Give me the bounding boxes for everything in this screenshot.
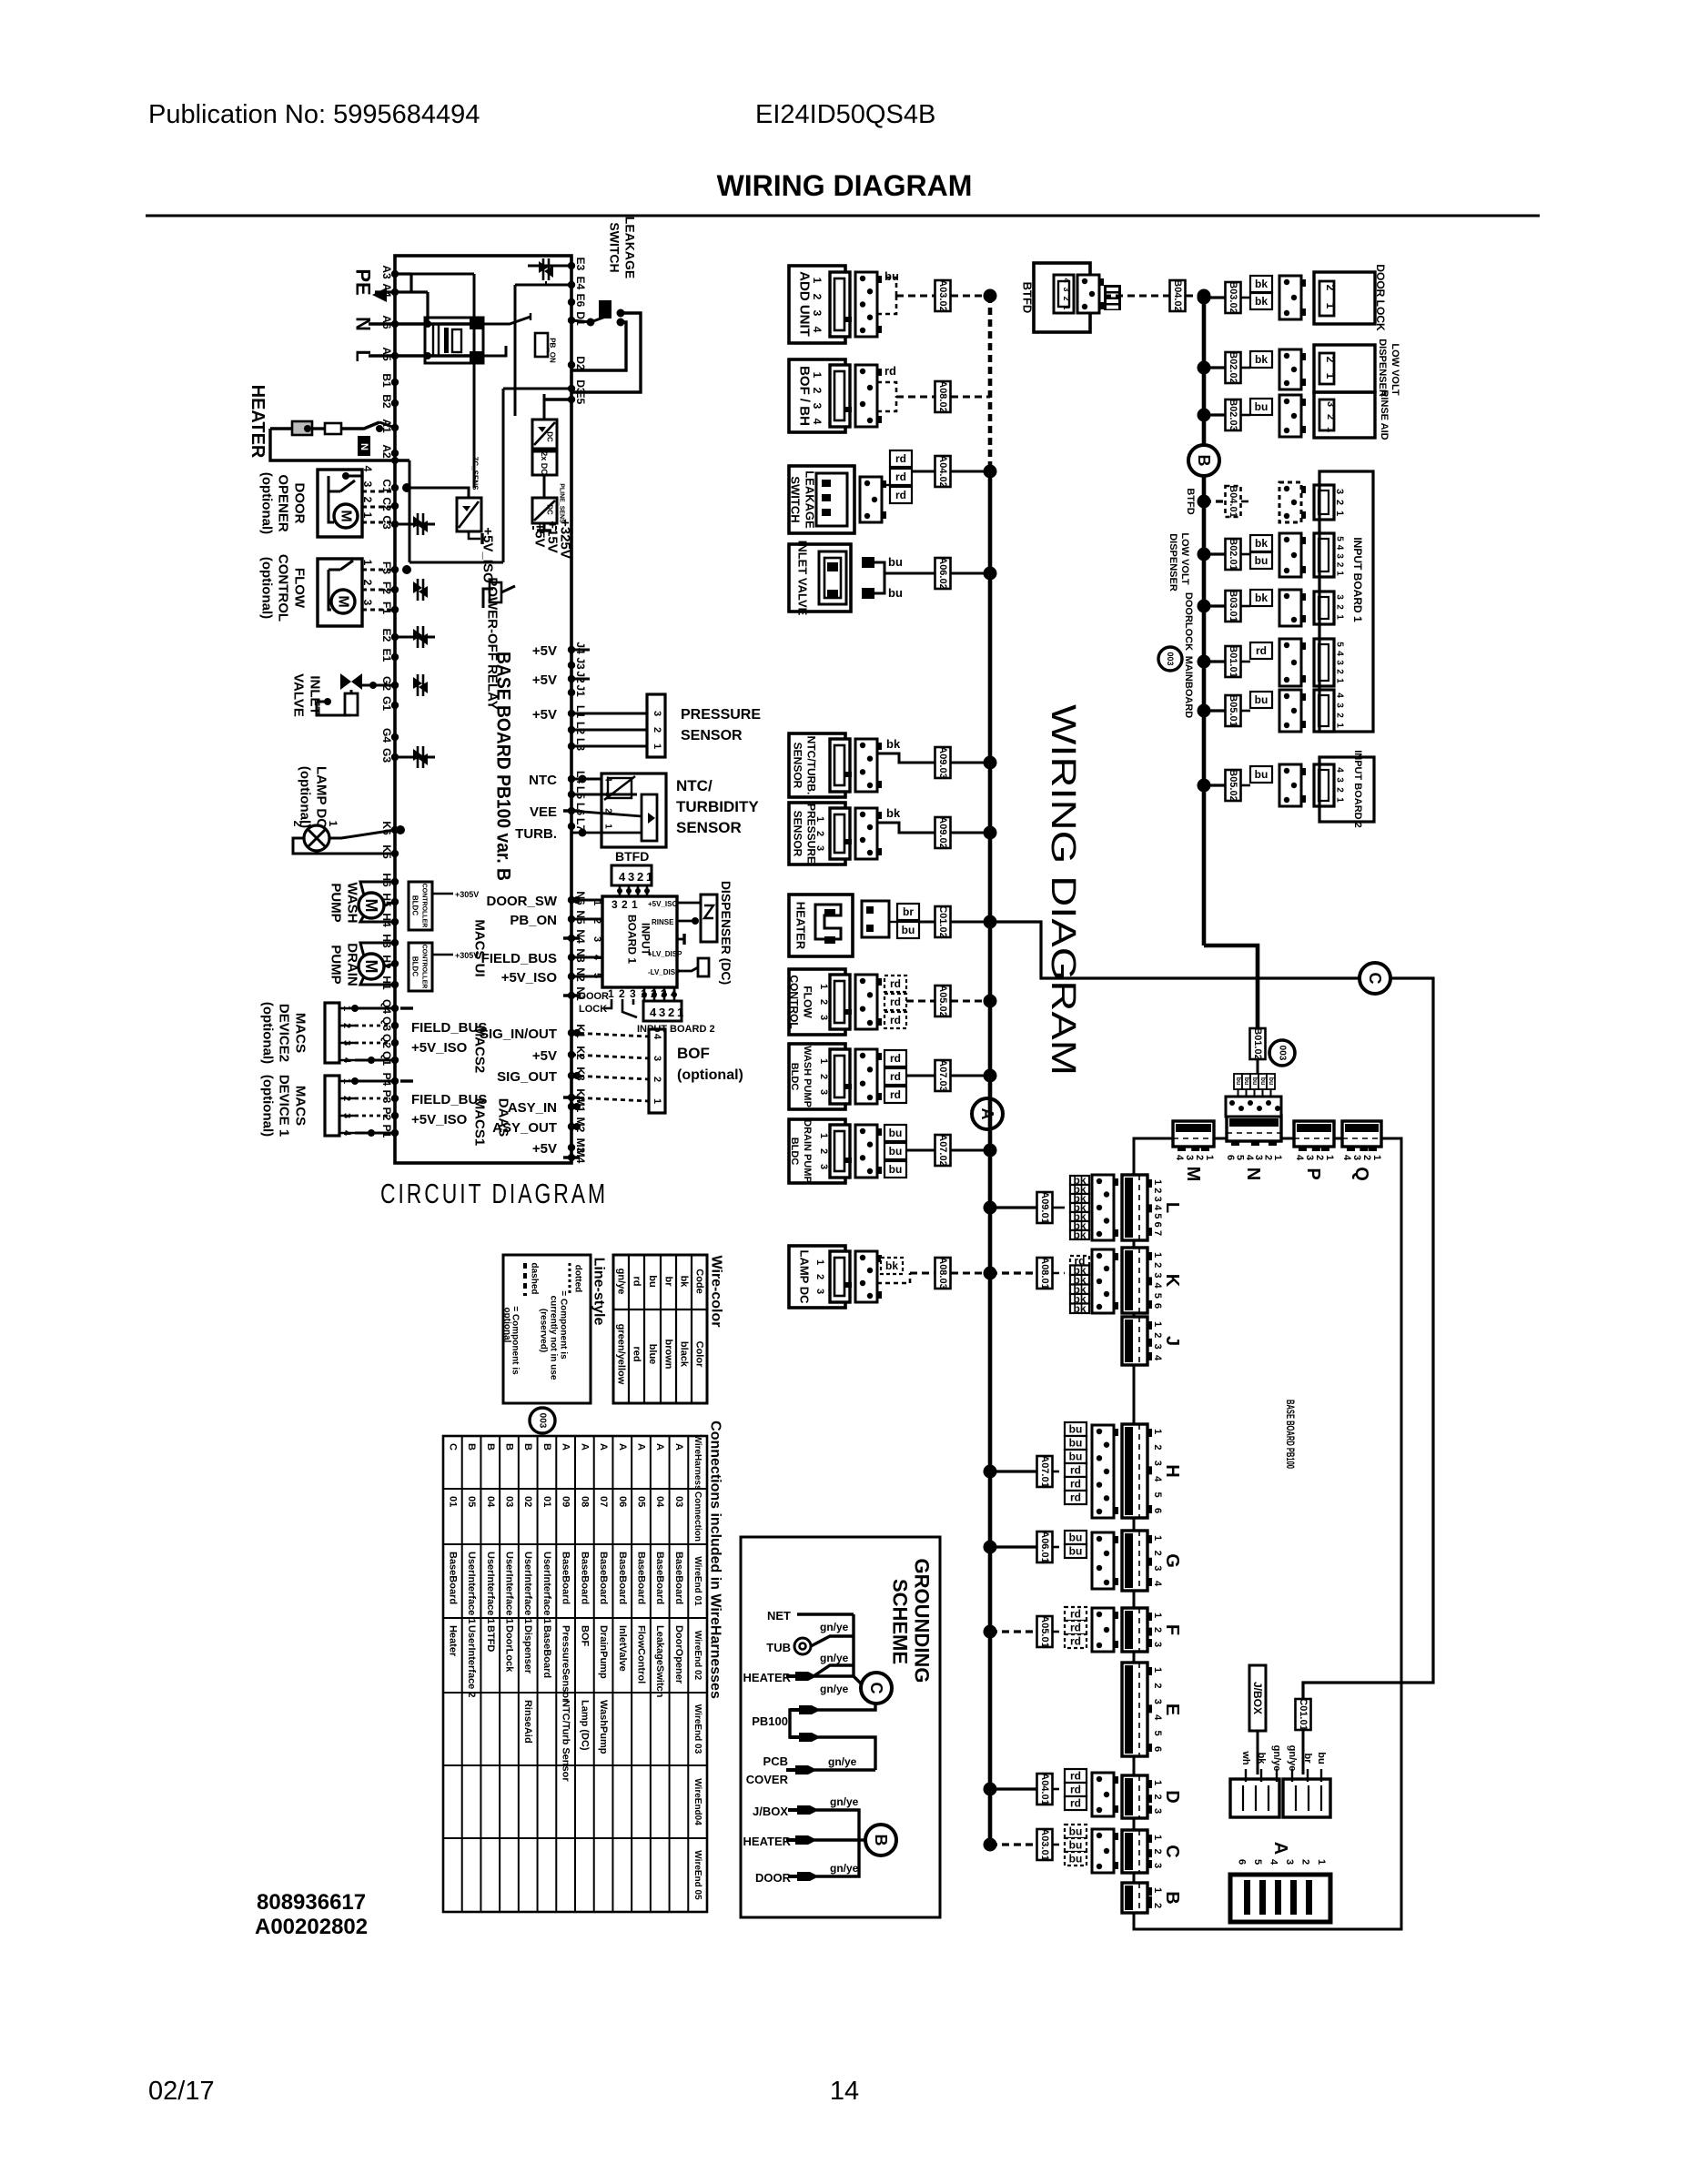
svg-text:B2: B2 — [380, 394, 393, 409]
svg-text:LOW VOLT: LOW VOLT — [1390, 343, 1400, 396]
svg-text:bu: bu — [1255, 693, 1269, 706]
svg-text:4: 4 — [1152, 1476, 1163, 1482]
grounding scheme box — [741, 1537, 940, 1917]
svg-text:04: 04 — [654, 1496, 665, 1508]
BTFD plug — [1104, 285, 1121, 310]
svg-text:BaseBoard: BaseBoard — [654, 1552, 665, 1604]
svg-text:bu: bu — [888, 586, 903, 600]
svg-text:bu: bu — [1069, 1853, 1083, 1865]
svg-text:BLDC: BLDC — [789, 1063, 800, 1091]
svg-text:2: 2 — [1062, 296, 1071, 300]
base board PB100 outline — [395, 256, 571, 1163]
svg-text:rd: rd — [1070, 1635, 1081, 1648]
svg-text:TUB: TUB — [766, 1641, 791, 1654]
svg-text:WireEnd 03: WireEnd 03 — [692, 1704, 702, 1754]
svg-text:1: 1 — [361, 560, 374, 566]
svg-text:1: 1 — [1152, 1179, 1163, 1185]
svg-text:B01.01: B01.01 — [1228, 645, 1238, 677]
triac G2 — [413, 677, 428, 693]
svg-text:NTC/TURB.: NTC/TURB. — [805, 736, 818, 795]
svg-text:14: 14 — [830, 2077, 859, 2106]
connector C — [1122, 1830, 1147, 1873]
svg-text:NTC/: NTC/ — [676, 777, 713, 794]
svg-text:A: A — [579, 1443, 590, 1451]
svg-text:3: 3 — [591, 936, 602, 942]
svg-text:A00202802: A00202802 — [255, 1915, 368, 1939]
svg-text:1: 1 — [608, 987, 614, 1000]
svg-text:bk: bk — [1256, 1753, 1267, 1765]
svg-text:3: 3 — [814, 1289, 825, 1294]
PRESSURE sensor component — [789, 803, 845, 864]
svg-text:SENSOR: SENSOR — [792, 811, 804, 857]
svg-text:4: 4 — [1152, 1581, 1163, 1587]
svg-text:1: 1 — [1316, 1859, 1327, 1865]
svg-text:BaseBoard: BaseBoard — [636, 1552, 647, 1604]
svg-text:3: 3 — [1152, 1344, 1163, 1350]
svg-text:3: 3 — [1062, 287, 1071, 291]
input board 1 — [602, 896, 677, 987]
svg-text:2: 2 — [814, 831, 825, 836]
svg-text:3: 3 — [612, 898, 618, 911]
svg-text:HEATER: HEATER — [248, 385, 268, 459]
svg-text:4: 4 — [1335, 651, 1345, 656]
svg-text:(optional): (optional) — [259, 472, 275, 534]
svg-text:HEATER: HEATER — [794, 902, 808, 950]
svg-text:2: 2 — [818, 1148, 829, 1154]
svg-text:DISPENSER: DISPENSER — [1167, 533, 1178, 591]
svg-text:F: F — [1162, 1624, 1182, 1635]
svg-text:DrainPump: DrainPump — [598, 1625, 609, 1679]
svg-text:3: 3 — [603, 792, 613, 797]
5V iso converter — [457, 498, 481, 531]
svg-text:F3: F3 — [380, 561, 393, 574]
svg-text:C01.02: C01.02 — [937, 905, 948, 937]
svg-text:SIG_OUT: SIG_OUT — [497, 1069, 557, 1085]
svg-text:4: 4 — [619, 870, 626, 884]
circle A node — [972, 1098, 1003, 1129]
C01.01 codebox — [1296, 1699, 1311, 1730]
connector E — [1122, 1663, 1147, 1756]
svg-text:A09.01: A09.01 — [1039, 1191, 1050, 1223]
svg-text:4: 4 — [1335, 545, 1345, 551]
svg-text:E2: E2 — [380, 629, 393, 642]
svg-text:WASH PUMP: WASH PUMP — [802, 1046, 813, 1107]
svg-text:WIRING DIAGRAM: WIRING DIAGRAM — [717, 169, 973, 202]
svg-text:2: 2 — [1335, 713, 1345, 718]
svg-text:A: A — [561, 1443, 571, 1451]
svg-text:SWITCH: SWITCH — [608, 222, 622, 272]
svg-text:E6: E6 — [574, 294, 587, 308]
row B05.02 — [1198, 779, 1211, 793]
svg-text:B02.02: B02.02 — [1228, 351, 1238, 383]
svg-text:Wire-color: Wire-color — [709, 1256, 724, 1328]
svg-text:LAMP DC: LAMP DC — [798, 1250, 812, 1305]
lug connector blocks — [1230, 1779, 1279, 1817]
svg-text:3: 3 — [818, 1089, 829, 1095]
svg-text:1: 1 — [652, 743, 662, 749]
svg-text:bu: bu — [1243, 1077, 1249, 1086]
svg-text:M: M — [1183, 1167, 1203, 1182]
dispenser (DC) — [701, 895, 717, 942]
svg-text:2: 2 — [1325, 414, 1336, 420]
svg-text:bk: bk — [885, 1259, 898, 1272]
svg-text:BTFD: BTFD — [485, 1625, 496, 1652]
svg-text:1: 1 — [1335, 614, 1345, 620]
svg-text:03: 03 — [673, 1496, 684, 1507]
svg-text:gn/ye: gn/ye — [820, 1683, 849, 1695]
svg-text:FlowControl: FlowControl — [636, 1625, 647, 1683]
NTC/TURB sensor component — [789, 733, 845, 797]
svg-text:dashed: dashed — [530, 1262, 540, 1294]
svg-text:-LV_DISP: -LV_DISP — [648, 968, 681, 976]
relay coil bottom — [483, 589, 493, 608]
svg-text:BOF / BH: BOF / BH — [797, 366, 813, 426]
bus A vertical — [988, 296, 993, 471]
svg-text:DRAIN PUMP: DRAIN PUMP — [802, 1119, 813, 1183]
svg-text:H: H — [1162, 1464, 1182, 1477]
circle B grounding — [865, 1825, 896, 1855]
svg-text:A07.03: A07.03 — [937, 1059, 948, 1091]
svg-text:ASY_IN: ASY_IN — [508, 1100, 557, 1116]
svg-text:02/17: 02/17 — [148, 2077, 215, 2106]
svg-text:MACS: MACS — [293, 1013, 308, 1053]
svg-text:RinseAid: RinseAid — [522, 1700, 533, 1744]
circle B node — [1188, 445, 1219, 476]
svg-text:A04.02: A04.02 — [937, 455, 948, 487]
svg-text:B: B — [466, 1443, 477, 1451]
svg-text:(optional): (optional) — [260, 1002, 276, 1064]
svg-text:bu: bu — [1235, 1077, 1241, 1086]
svg-text:H1: H1 — [380, 976, 393, 990]
svg-text:LAMP DC: LAMP DC — [314, 766, 329, 828]
svg-text:1: 1 — [1152, 1780, 1163, 1785]
svg-text:UserInterface 1: UserInterface 1 — [504, 1552, 515, 1624]
svg-text:A08.02: A08.02 — [937, 380, 948, 412]
003 circle — [1158, 647, 1182, 671]
svg-text:1: 1 — [814, 1259, 825, 1265]
svg-text:07: 07 — [598, 1496, 609, 1507]
bus B vertical — [1202, 296, 1207, 945]
svg-text:CONTROL: CONTROL — [276, 554, 291, 622]
svg-text:rd: rd — [895, 452, 906, 465]
svg-text:4: 4 — [1152, 1283, 1163, 1289]
svg-text:L1: L1 — [574, 705, 587, 718]
svg-text:L3: L3 — [574, 738, 587, 751]
svg-text:+305V: +305V — [455, 890, 479, 899]
base board PB100 (wiring side) — [1134, 1138, 1401, 1929]
svg-text:Connection: Connection — [692, 1491, 702, 1542]
svg-text:L6: L6 — [574, 803, 587, 815]
row DOOR LOCK — [1198, 291, 1211, 305]
svg-text:BLDC: BLDC — [411, 956, 419, 976]
svg-text:PB100: PB100 — [752, 1714, 788, 1728]
svg-text:2: 2 — [1152, 1262, 1163, 1268]
svg-text:+5V_ISO: +5V_ISO — [501, 970, 558, 986]
svg-text:SENSOR: SENSOR — [681, 728, 743, 743]
connector G — [1122, 1531, 1147, 1591]
svg-text:1: 1 — [818, 1133, 829, 1138]
svg-text:A: A — [617, 1443, 628, 1451]
svg-text:+5V: +5V — [532, 1141, 557, 1157]
svg-text:Q3: Q3 — [380, 1016, 393, 1031]
svg-text:rd: rd — [890, 977, 901, 990]
svg-text:3: 3 — [1335, 660, 1345, 665]
svg-text:WireEnd 05: WireEnd 05 — [692, 1850, 702, 1900]
svg-text:InletValve: InletValve — [617, 1625, 628, 1672]
svg-text:G3: G3 — [380, 748, 393, 763]
svg-text:3: 3 — [811, 403, 824, 409]
svg-text:MACS1: MACS1 — [472, 1098, 488, 1147]
svg-text:H6: H6 — [380, 873, 393, 887]
svg-text:1: 1 — [1335, 571, 1345, 576]
svg-text:HEATER: HEATER — [743, 1671, 792, 1684]
svg-text:H4: H4 — [380, 913, 393, 927]
svg-text:4: 4 — [1152, 1355, 1163, 1361]
row DOORLOCK — [1198, 600, 1211, 613]
svg-text:M: M — [339, 510, 354, 521]
EMI filter block — [425, 318, 483, 363]
svg-text:2: 2 — [1152, 1848, 1163, 1854]
svg-text:DOOR: DOOR — [579, 991, 609, 1002]
svg-text:7: 7 — [1152, 1230, 1163, 1236]
svg-text:A3: A3 — [380, 265, 393, 279]
svg-text:4: 4 — [650, 1006, 657, 1019]
svg-text:4: 4 — [361, 466, 374, 472]
svg-text:J/BOX: J/BOX — [753, 1805, 788, 1818]
row MAINBOARD — [1198, 655, 1211, 669]
svg-text:CONTROLLER: CONTROLLER — [421, 884, 428, 928]
svg-text:UserInterface 1: UserInterface 1 — [485, 1552, 496, 1624]
svg-text:NTC/Turb Sensor: NTC/Turb Sensor — [561, 1700, 571, 1782]
svg-text:Heater: Heater — [447, 1625, 458, 1657]
svg-text:rd: rd — [1070, 1478, 1081, 1491]
svg-text:5: 5 — [1152, 1492, 1163, 1498]
WASH PUMP BLDC component — [789, 1044, 845, 1109]
svg-text:4: 4 — [1294, 1155, 1305, 1161]
svg-text:LEAKAGE: LEAKAGE — [623, 217, 638, 278]
svg-text:6: 6 — [1225, 1155, 1236, 1160]
svg-text:B: B — [1195, 455, 1213, 467]
svg-text:3: 3 — [652, 1056, 662, 1061]
svg-text:3: 3 — [1335, 594, 1345, 600]
svg-text:EI24ID50QS4B: EI24ID50QS4B — [755, 100, 935, 129]
svg-text:1: 1 — [1335, 723, 1345, 728]
svg-text:4: 4 — [1062, 278, 1071, 282]
row L harness — [984, 1201, 997, 1215]
svg-text:red: red — [632, 1346, 642, 1361]
svg-text:OPENER: OPENER — [276, 474, 291, 532]
svg-text:4: 4 — [1341, 1155, 1352, 1161]
svg-text:BaseBoard: BaseBoard — [673, 1552, 684, 1604]
BLDC controller (wash) — [409, 882, 432, 930]
INLET VALVE component — [789, 544, 851, 612]
svg-text:2: 2 — [1324, 357, 1337, 363]
svg-text:3: 3 — [1152, 1863, 1163, 1868]
svg-text:NTC: NTC — [529, 773, 557, 788]
svg-text:BLDC: BLDC — [789, 1137, 800, 1166]
BOF (optional) — [649, 1029, 665, 1113]
svg-text:003: 003 — [538, 1413, 548, 1429]
svg-text:N5: N5 — [574, 910, 587, 925]
svg-text:4: 4 — [1335, 693, 1345, 698]
svg-text:MACS UI: MACS UI — [472, 919, 488, 976]
svg-text:2: 2 — [818, 1074, 829, 1079]
row B05.01 — [1198, 704, 1211, 718]
svg-text:rd: rd — [890, 996, 901, 1008]
svg-text:L: L — [352, 349, 375, 361]
svg-text:M: M — [362, 960, 380, 974]
svg-text:4: 4 — [1335, 767, 1345, 773]
svg-text:+5V_ISO: +5V_ISO — [411, 1112, 468, 1127]
svg-text:bu: bu — [889, 1127, 903, 1139]
svg-text:INLET VALVE: INLET VALVE — [796, 541, 810, 616]
svg-text:1: 1 — [1324, 373, 1337, 379]
svg-text:MACS: MACS — [293, 1086, 308, 1126]
row H harness — [984, 1465, 997, 1479]
svg-text:3: 3 — [818, 1164, 829, 1169]
svg-text:bk: bk — [1073, 1228, 1086, 1241]
svg-text:TURBIDITY: TURBIDITY — [676, 798, 759, 815]
svg-text:SCHEME: SCHEME — [889, 1579, 912, 1664]
svg-text:BOARD 1: BOARD 1 — [626, 915, 639, 964]
svg-text:01: 01 — [447, 1496, 458, 1507]
svg-text:A06.02: A06.02 — [937, 557, 948, 589]
svg-text:003: 003 — [1166, 652, 1175, 665]
svg-text:MAINBOARD: MAINBOARD — [1183, 656, 1194, 718]
svg-text:PB_ON: PB_ON — [549, 338, 557, 363]
svg-text:A: A — [1270, 1842, 1290, 1855]
svg-text:INPUT BOARD 2: INPUT BOARD 2 — [1352, 750, 1363, 828]
svg-text:1: 1 — [818, 1058, 829, 1064]
svg-text:br: br — [903, 905, 914, 918]
node N — [369, 322, 473, 325]
svg-text:A08.01: A08.01 — [1039, 1257, 1050, 1289]
svg-text:003: 003 — [1278, 1046, 1288, 1061]
svg-text:2: 2 — [1152, 1683, 1163, 1688]
svg-text:DEVICE 1: DEVICE 1 — [277, 1075, 292, 1137]
svg-text:2: 2 — [622, 898, 628, 911]
svg-text:gn/ye: gn/ye — [830, 1862, 859, 1875]
svg-text:2: 2 — [1334, 500, 1345, 505]
svg-text:rd: rd — [1070, 1784, 1081, 1796]
svg-text:1: 1 — [361, 512, 374, 519]
svg-text:BaseBoard: BaseBoard — [579, 1552, 590, 1604]
svg-text:currently not in use: currently not in use — [549, 1296, 559, 1380]
title rule — [146, 215, 1540, 217]
svg-text:C2: C2 — [380, 497, 393, 511]
svg-text:+LV_DISP: +LV_DISP — [648, 950, 682, 958]
power supply DC converters — [532, 420, 557, 449]
svg-text:BOF: BOF — [677, 1045, 710, 1062]
connector P — [1294, 1121, 1334, 1147]
svg-text:gn/ye: gn/ye — [830, 1795, 859, 1808]
svg-text:2: 2 — [652, 727, 662, 733]
svg-text:1: 1 — [1152, 1321, 1163, 1327]
svg-text:2: 2 — [811, 388, 824, 394]
ADD UNIT — [789, 266, 845, 343]
svg-text:3: 3 — [630, 987, 636, 1000]
svg-text:PCB: PCB — [763, 1754, 788, 1768]
DRAIN PUMP BLDC component — [789, 1119, 845, 1183]
circle C node — [1359, 963, 1390, 994]
svg-text:08: 08 — [579, 1496, 590, 1507]
svg-text:P3: P3 — [380, 1090, 393, 1104]
svg-text:A: A — [654, 1443, 665, 1451]
svg-text:03: 03 — [504, 1496, 515, 1507]
svg-text:1: 1 — [811, 278, 824, 284]
svg-text:A03.01: A03.01 — [1039, 1828, 1050, 1860]
svg-text:PE: PE — [352, 268, 375, 295]
connector B — [1122, 1883, 1147, 1913]
svg-text:green/yellow: green/yellow — [616, 1324, 627, 1385]
svg-text:P2: P2 — [380, 1107, 393, 1121]
svg-text:09: 09 — [561, 1496, 571, 1507]
svg-text:+5V: +5V — [532, 672, 557, 688]
triac E2 — [413, 629, 428, 645]
triac F2 — [413, 581, 428, 598]
svg-text:A6: A6 — [380, 315, 393, 329]
svg-text:B: B — [485, 1443, 496, 1451]
svg-text:gn/ye: gn/ye — [1287, 1745, 1298, 1772]
svg-text:DEVICE2: DEVICE2 — [277, 1004, 292, 1062]
svg-text:bu: bu — [1316, 1752, 1327, 1764]
svg-text:COVER: COVER — [746, 1773, 789, 1786]
svg-text:bk: bk — [1255, 353, 1268, 366]
svg-text:ASY_OUT: ASY_OUT — [492, 1120, 557, 1136]
svg-text:br: br — [663, 1277, 674, 1288]
svg-text:PRESSURE: PRESSURE — [681, 707, 761, 723]
connector J — [1122, 1317, 1147, 1365]
svg-text:DISPENSER (DC): DISPENSER (DC) — [719, 881, 733, 985]
svg-text:WashPump: WashPump — [598, 1700, 609, 1754]
svg-text:ADD UNIT: ADD UNIT — [797, 271, 813, 337]
svg-text:4: 4 — [603, 776, 613, 782]
svg-text:P4: P4 — [380, 1073, 393, 1087]
svg-text:B05.01: B05.01 — [1228, 694, 1238, 726]
svg-text:bk: bk — [1255, 278, 1268, 290]
svg-text:(reserved): (reserved) — [539, 1309, 549, 1352]
svg-text:M: M — [362, 899, 380, 913]
svg-text:B01.02: B01.02 — [1252, 1027, 1263, 1059]
svg-text:1: 1 — [646, 870, 652, 884]
svg-text:bk: bk — [886, 806, 901, 820]
svg-text:K5: K5 — [380, 844, 393, 859]
wires J/L to sensor — [571, 649, 590, 652]
svg-text:6: 6 — [1152, 1746, 1163, 1752]
svg-text:DISPENSER: DISPENSER — [1377, 339, 1388, 397]
svg-text:bu: bu — [1069, 1423, 1083, 1436]
row K harness — [990, 1271, 1037, 1274]
N harness labels — [1234, 1074, 1242, 1089]
svg-text:rd: rd — [1070, 1770, 1081, 1783]
svg-text:01: 01 — [541, 1496, 552, 1507]
svg-text:LOW VOLT: LOW VOLT — [1179, 532, 1190, 585]
svg-text:A05.02: A05.02 — [937, 985, 948, 1016]
svg-text:2: 2 — [814, 1274, 825, 1279]
triac G4 — [413, 749, 428, 765]
svg-text:Connections included in WireHa: Connections included in WireHarnesses — [708, 1421, 723, 1699]
svg-text:black: black — [679, 1341, 690, 1368]
svg-text:5: 5 — [1152, 1213, 1163, 1218]
svg-text:bk: bk — [1073, 1302, 1086, 1315]
svg-text:B04.01: B04.01 — [1228, 485, 1238, 517]
svg-text:A5: A5 — [380, 347, 393, 361]
svg-text:5: 5 — [1335, 536, 1345, 541]
svg-text:K2: K2 — [574, 1046, 587, 1060]
svg-text:D: D — [1162, 1790, 1182, 1803]
svg-text:WireHarness: WireHarness — [692, 1434, 702, 1490]
svg-text:TURB.: TURB. — [515, 826, 557, 842]
